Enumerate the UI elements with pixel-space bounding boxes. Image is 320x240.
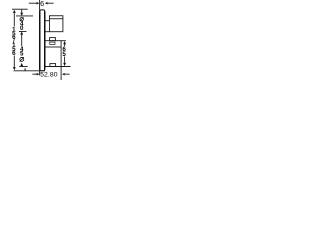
small tick x25.1 (24, 68, 26, 71)
svg-text:6: 6 (40, 0, 44, 8)
top dim left-pointing arrow (45, 2, 48, 5)
right vertical extension x61.1 (60, 47, 62, 80)
dim3 down arrow (63, 63, 66, 66)
lower body big rect (45, 41, 61, 47)
svg-text:5: 5 (62, 51, 66, 58)
bottom dim tails y74 (32, 73, 36, 75)
label 45⌀ (dim2 lower, stacked) (20, 46, 24, 58)
svg-text:5: 5 (20, 51, 24, 58)
wall extension line (vertical, x=39.6) (39, 0, 41, 75)
svg-text:6: 6 (12, 50, 16, 57)
label 65 (dim3, stacked) (62, 46, 66, 58)
bottom reference line y66.5 left segment (19, 66, 27, 68)
bottom dim left-pointing arrow (62, 73, 65, 76)
dim line 2 (x=21.7) segments (21, 10, 23, 13)
svg-text:52.80: 52.80 (40, 72, 58, 79)
dim2 bottom up arrow (base on line) (20, 63, 23, 66)
handle bottom extension line to left (y31.5) (19, 31, 27, 33)
top extension line y9.2 (12, 8, 28, 10)
bottom dim right-pointing arrow (37, 73, 40, 76)
svg-text:0: 0 (20, 25, 24, 32)
label ⌀40 (dim2 upper, stacked) (0, 0, 1, 1)
plate side faces thickeners (39, 12, 41, 70)
escutcheon plate side view (rounded rect) (40, 10, 45, 71)
dim3 up arrow (63, 41, 66, 44)
neck top line (45, 20, 49, 22)
handle body rect (upper) (50, 16, 63, 32)
dim1 down arrow (13, 67, 16, 70)
handle inner line (50, 18, 63, 20)
dim2 mid up arrow (20, 31, 23, 34)
dim line 1 (x=14.3) vertical segments (13, 13, 15, 27)
neck bottom line (45, 31, 49, 33)
dim1 up arrow (13, 10, 16, 13)
bottom reference line y66.5 right segment (45, 66, 71, 68)
handle top extension line to left (y15.9) (16, 15, 33, 17)
bottom small box (50, 64, 56, 67)
top dim right-pointing arrow (37, 2, 40, 5)
lower body top small box (50, 38, 56, 41)
top dim "6" tails y3.2 (29, 2, 37, 4)
dim line 3 right (x=64.6) segments (64, 44, 66, 46)
label 156/156 (dim1, stacked) (12, 26, 16, 57)
right extension line y40.7 (61, 40, 66, 42)
lower body inner small rect (50, 42, 55, 44)
dim2 top down arrow (20, 13, 23, 16)
bottom extension line y70.85 (14, 70, 45, 72)
